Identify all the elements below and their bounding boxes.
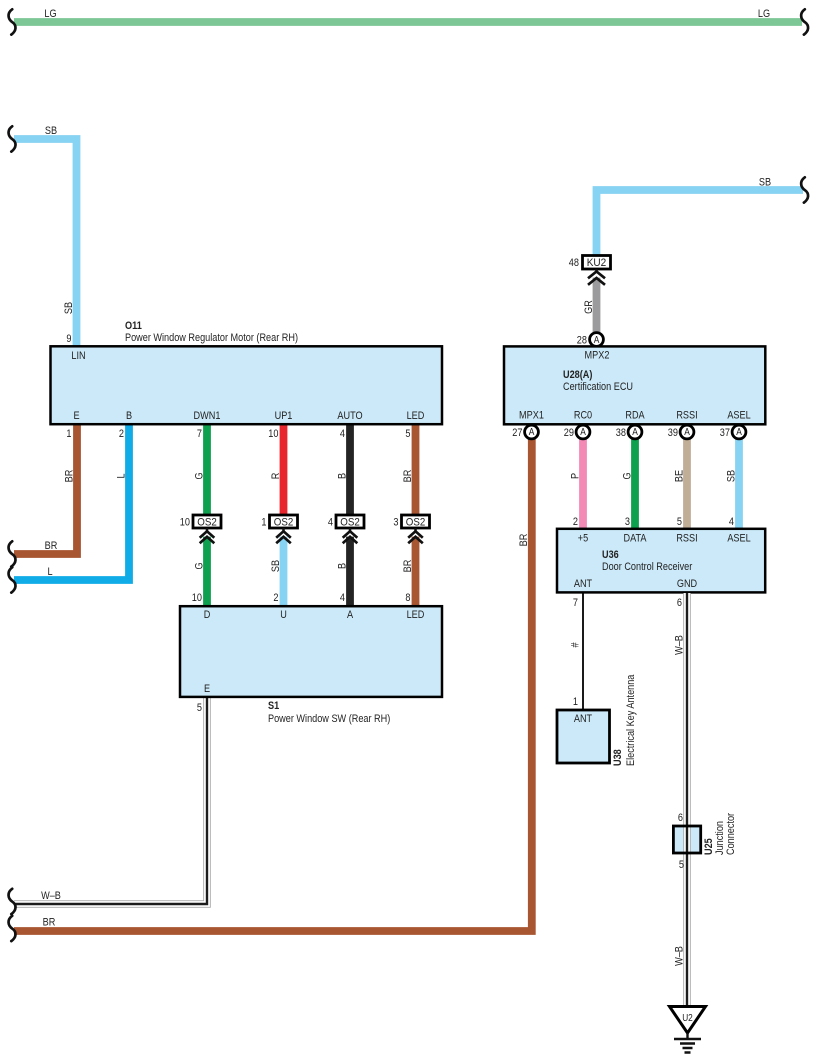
- svg-text:37: 37: [720, 427, 730, 439]
- wire B from OS2 to S1 (x=350): [336, 537, 350, 607]
- svg-text:R: R: [270, 473, 282, 480]
- break symbol at left end of LG wire: [9, 9, 16, 34]
- svg-text:27: 27: [512, 427, 522, 439]
- connector OS2 pin 1: [261, 515, 297, 543]
- svg-text:A: A: [632, 427, 638, 438]
- svg-text:4: 4: [340, 592, 345, 604]
- junction A circle at U28 pin 38: [616, 425, 642, 439]
- wire BR from left edge to U28 pin MPX1 (27): [14, 432, 532, 931]
- svg-text:UP1: UP1: [275, 410, 293, 422]
- svg-text:A: A: [347, 609, 354, 621]
- svg-text:B: B: [126, 410, 132, 422]
- svg-text:G: G: [193, 472, 205, 479]
- svg-text:G: G: [621, 472, 633, 479]
- svg-text:LG: LG: [758, 8, 770, 20]
- junction connector U25 (border and labels): [673, 813, 737, 855]
- component U28(A) Certification ECU: [504, 346, 765, 424]
- svg-text:W–B: W–B: [673, 635, 685, 655]
- svg-text:SB: SB: [63, 302, 75, 314]
- svg-text:9: 9: [66, 333, 71, 345]
- svg-text:2: 2: [273, 592, 278, 604]
- svg-text:BR: BR: [43, 917, 56, 929]
- svg-text:A: A: [529, 427, 535, 438]
- break symbol at left end of W-B wire: [9, 889, 16, 914]
- wire B from O11 to connector OS2 (x=350): [336, 424, 350, 516]
- connector OS2 pin 10: [180, 515, 221, 543]
- svg-text:6: 6: [678, 812, 683, 824]
- wire SB from right edge to connector KU2 (48): [597, 177, 804, 256]
- svg-text:10: 10: [192, 592, 202, 604]
- wire GR from KU2 to U28 pin MPX2 (28): [583, 278, 597, 333]
- svg-text:ANT: ANT: [574, 578, 593, 590]
- svg-text:1: 1: [66, 428, 71, 440]
- wire R from O11 to connector OS2 (x=283.5): [270, 424, 284, 516]
- svg-text:5: 5: [197, 702, 202, 714]
- svg-text:LED: LED: [407, 609, 425, 621]
- component O11 Power Window Regulator Motor (Rear RH): [51, 320, 443, 424]
- svg-text:SB: SB: [725, 470, 737, 482]
- svg-text:LIN: LIN: [71, 350, 85, 362]
- svg-text:W–B: W–B: [673, 946, 685, 966]
- wire BE from U28 to U36 (x=687): [673, 432, 687, 530]
- svg-text:U: U: [280, 609, 287, 621]
- svg-text:3: 3: [625, 516, 630, 528]
- svg-text:BR: BR: [45, 540, 58, 552]
- svg-text:W–B: W–B: [41, 890, 61, 902]
- wire SB from U28 to U36 (x=739): [725, 432, 739, 530]
- svg-text:Door Control Receiver: Door Control Receiver: [602, 561, 693, 573]
- svg-text:OS2: OS2: [274, 517, 294, 529]
- wire SB from OS2 to S1 (x=283.5): [270, 537, 284, 607]
- wire BR from O11 pin E (1) to left edge: [14, 424, 77, 554]
- svg-text:2: 2: [119, 428, 124, 440]
- svg-text:A: A: [736, 427, 742, 438]
- svg-text:B: B: [336, 563, 348, 569]
- svg-text:ASEL: ASEL: [727, 533, 750, 545]
- svg-text:SB: SB: [45, 125, 57, 137]
- svg-text:B: B: [336, 473, 348, 479]
- wire W-B from S1 pin E (5) to left edge: [14, 697, 207, 904]
- svg-text:L: L: [47, 566, 52, 578]
- junction connector U25 (box fill): [673, 826, 700, 853]
- break symbol at left end of bottom BR wire: [9, 916, 16, 941]
- svg-text:GND: GND: [677, 578, 697, 590]
- wire LG (top horizontal): [14, 8, 802, 22]
- svg-text:10: 10: [268, 428, 278, 440]
- junction A circle at U28 pin 39: [668, 425, 694, 439]
- svg-text:E: E: [73, 410, 79, 422]
- wire G from O11 to connector OS2 (x=207): [193, 424, 207, 516]
- svg-text:DATA: DATA: [624, 533, 648, 545]
- wire SB from left edge to O11 pin 9 (LIN): [14, 125, 77, 347]
- svg-text:39: 39: [668, 427, 678, 439]
- svg-text:G: G: [193, 562, 205, 569]
- svg-text:A: A: [594, 335, 600, 346]
- svg-text:Connector: Connector: [725, 813, 737, 855]
- svg-text:Power Window Regulator Motor (: Power Window Regulator Motor (Rear RH): [125, 332, 298, 344]
- connector OS2 pin 3: [393, 515, 429, 543]
- svg-text:38: 38: [616, 427, 626, 439]
- svg-text:RDA: RDA: [625, 410, 645, 422]
- svg-text:29: 29: [564, 427, 574, 439]
- svg-text:4: 4: [729, 516, 734, 528]
- svg-text:Certification ECU: Certification ECU: [563, 381, 633, 393]
- svg-text:KU2: KU2: [587, 257, 607, 269]
- svg-text:U2: U2: [682, 1013, 693, 1024]
- svg-text:1: 1: [573, 696, 578, 708]
- svg-text:MPX1: MPX1: [519, 410, 544, 422]
- component U38 Electrical Key Antenna: [557, 674, 637, 766]
- svg-text:U28(A): U28(A): [563, 369, 593, 381]
- svg-text:U36: U36: [602, 549, 619, 561]
- svg-text:AUTO: AUTO: [337, 410, 363, 422]
- wire (shielded antenna) from U36 pin ANT (7) to U38 pin 1: [569, 593, 583, 711]
- junction A circle at U28 pin 37: [720, 425, 746, 439]
- svg-text:BR: BR: [518, 534, 530, 547]
- svg-text:A: A: [580, 427, 586, 438]
- ground U2: [670, 1007, 706, 1053]
- svg-text:ASEL: ASEL: [727, 410, 750, 422]
- svg-text:7: 7: [197, 428, 202, 440]
- svg-text:4: 4: [340, 428, 345, 440]
- svg-text:7: 7: [573, 597, 578, 609]
- junction A circle at U28 pin MPX2 (28): [577, 333, 604, 347]
- svg-text:LG: LG: [44, 8, 56, 20]
- svg-text:3: 3: [393, 517, 398, 529]
- svg-text:RSSI: RSSI: [676, 533, 697, 545]
- svg-text:ANT: ANT: [574, 713, 593, 725]
- svg-text:SB: SB: [270, 560, 282, 572]
- svg-text:OS2: OS2: [197, 517, 217, 529]
- svg-text:Power Window SW (Rear RH): Power Window SW (Rear RH): [268, 713, 390, 725]
- wire G from U28 to U36 (x=635): [621, 432, 635, 530]
- svg-text:BE: BE: [673, 470, 685, 482]
- svg-text:10: 10: [180, 517, 190, 529]
- svg-text:DWN1: DWN1: [194, 410, 221, 422]
- wire L from O11 pin B (2) to left edge: [14, 424, 129, 580]
- svg-text:BR: BR: [402, 560, 414, 573]
- connector OS2 pin 4: [328, 515, 364, 543]
- component S1 Power Window SW (Rear RH): [180, 606, 442, 725]
- svg-text:8: 8: [405, 592, 410, 604]
- svg-text:LED: LED: [407, 410, 425, 422]
- svg-text:A: A: [684, 427, 690, 438]
- wire BR from O11 to connector OS2 (x=415.5): [402, 424, 416, 516]
- svg-text:#: #: [569, 642, 581, 648]
- O11 pin numbers 1 2 7 10 4 5: [66, 428, 410, 440]
- svg-text:BR: BR: [63, 470, 75, 483]
- svg-text:U38: U38: [612, 749, 624, 766]
- junction A circle at U28 pin 29: [564, 425, 590, 439]
- svg-text:S1: S1: [268, 700, 279, 712]
- svg-text:SB: SB: [759, 177, 771, 189]
- svg-text:RC0: RC0: [574, 410, 592, 422]
- svg-text:D: D: [204, 609, 211, 621]
- svg-text:+5: +5: [578, 533, 588, 545]
- svg-text:6: 6: [677, 597, 682, 609]
- wire BR from OS2 to S1 (x=415.5): [402, 537, 416, 607]
- break symbol at left end of L wire: [9, 567, 16, 592]
- break symbol at right end of LG wire: [801, 9, 808, 34]
- svg-text:L: L: [115, 473, 127, 478]
- svg-text:RSSI: RSSI: [676, 410, 697, 422]
- connector KU2 pin 48: [569, 256, 611, 285]
- svg-text:Electrical Key Antenna: Electrical Key Antenna: [625, 674, 637, 766]
- svg-text:5: 5: [405, 428, 410, 440]
- svg-text:1: 1: [261, 517, 266, 529]
- break symbol at left end of SB wire: [9, 126, 16, 151]
- svg-text:O11: O11: [125, 320, 142, 332]
- svg-text:BR: BR: [402, 470, 414, 483]
- svg-text:MPX2: MPX2: [585, 349, 610, 361]
- svg-text:28: 28: [577, 335, 587, 347]
- wire P from U28 to U36 (x=583): [569, 432, 583, 530]
- svg-text:48: 48: [569, 257, 579, 269]
- component U36 Door Control Receiver: [557, 529, 765, 593]
- wire W-B from U36 pin GND (6) through U25 to ground U2: [673, 593, 687, 1008]
- junction A circle at U28 pin 27: [512, 425, 538, 439]
- svg-text:GR: GR: [583, 300, 595, 314]
- svg-text:E: E: [204, 683, 210, 695]
- wire G from OS2 to S1 (x=207): [192, 537, 207, 607]
- svg-text:OS2: OS2: [340, 517, 360, 529]
- svg-text:5: 5: [679, 859, 684, 871]
- svg-text:OS2: OS2: [406, 517, 426, 529]
- svg-text:2: 2: [573, 516, 578, 528]
- svg-text:4: 4: [328, 517, 333, 529]
- svg-text:P: P: [569, 473, 581, 479]
- svg-text:5: 5: [677, 516, 682, 528]
- break symbol at right end of SB wire: [801, 177, 808, 202]
- break symbol at left end of BR wire: [9, 541, 16, 566]
